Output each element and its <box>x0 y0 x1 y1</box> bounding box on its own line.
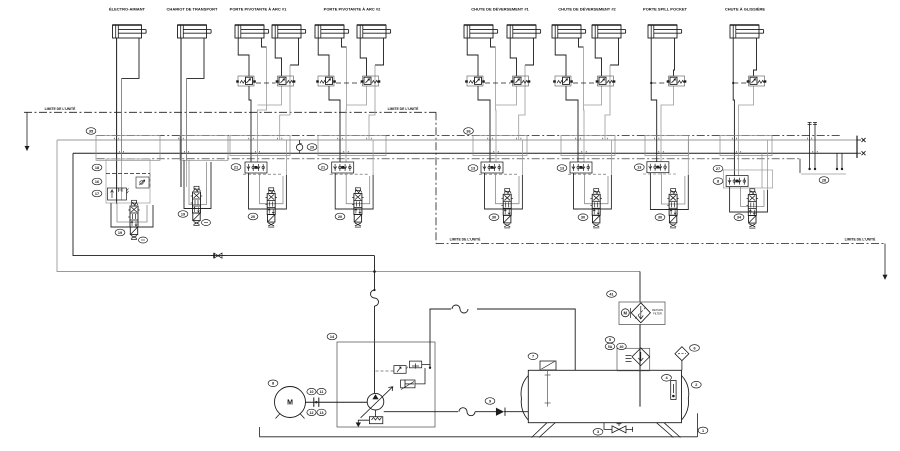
cylinder group 6A <box>552 25 586 38</box>
group5 cylA cap line <box>467 38 478 76</box>
group8 work line right riser <box>767 140 769 190</box>
svg-text:7: 7 <box>532 355 534 359</box>
shaft line <box>306 401 368 403</box>
spare stub left short <box>799 159 801 173</box>
balloon 30 group7 <box>655 214 665 221</box>
directional valve group8 <box>747 189 759 228</box>
counterbalance valve group5A <box>465 76 485 86</box>
pressure rail P horizontal <box>73 152 857 154</box>
svg-text:17: 17 <box>95 192 99 196</box>
cylinder group 5B <box>507 25 541 38</box>
return filter drop through tank <box>639 324 641 407</box>
floor right upright <box>697 413 699 437</box>
group1 dashed pilot lines <box>106 173 150 175</box>
directional valve group3 <box>265 188 277 227</box>
balloon 9 <box>485 398 495 405</box>
balloon 21 group4 <box>318 164 328 171</box>
svg-text:20: 20 <box>338 215 342 219</box>
svg-text:29: 29 <box>310 145 314 149</box>
reservoir right end cap <box>682 376 689 421</box>
counterbalance valve group7 <box>667 76 687 86</box>
balloon 16 <box>92 178 102 185</box>
case drain relief valve <box>369 417 382 424</box>
directional valve group6 <box>590 189 602 228</box>
group7 work line U dark <box>650 173 688 210</box>
group4 work line right riser <box>372 140 374 175</box>
cylinder group 5A <box>464 25 498 38</box>
svg-text:8: 8 <box>717 180 719 184</box>
flow control box group5 <box>481 162 503 173</box>
svg-text:PORTE PIVOTANTE À ARC #2: PORTE PIVOTANTE À ARC #2 <box>324 7 381 12</box>
group5 work line U dark <box>485 173 523 209</box>
balloon 40 <box>617 343 627 349</box>
group1 reducing-check subplate <box>106 159 150 203</box>
group5 manifold block <box>473 135 527 155</box>
group8 cap-end line <box>733 38 734 176</box>
hydraulic pump variable displacement <box>367 393 384 410</box>
manifold enclosure bottom dash-dot <box>97 158 800 160</box>
counterbalance valve group8 <box>747 76 767 86</box>
group8 work line U gray <box>741 187 764 207</box>
balloon 5A <box>605 343 615 349</box>
svg-text:36: 36 <box>466 129 470 133</box>
group6 cylA rod line <box>579 38 584 47</box>
group6 work line right riser <box>610 140 612 175</box>
group5 cylA rod line <box>491 38 496 47</box>
svg-text:LIMITE DE L'UNITÉ: LIMITE DE L'UNITÉ <box>45 106 76 111</box>
group4 cylB rod line <box>375 38 384 65</box>
group5 dashed line under flow box <box>479 173 519 175</box>
group7 work line U gray <box>661 173 685 204</box>
group4 cylA cap line <box>318 38 329 76</box>
cylinder group 8 <box>730 25 764 38</box>
quick-disconnect on P loop line <box>211 253 225 258</box>
coupling symbol <box>314 398 319 407</box>
svg-text:8: 8 <box>272 382 274 386</box>
filler strainer diamond item 6 <box>675 347 689 361</box>
group6 cylA cap line <box>555 38 566 76</box>
svg-text:CHUTE DE DÉVERSEMENT #1: CHUTE DE DÉVERSEMENT #1 <box>471 7 529 12</box>
balloon 14 <box>327 333 337 340</box>
svg-text:CHARIOT DE TRANSPORT: CHARIOT DE TRANSPORT <box>167 7 218 12</box>
group4 dashed line under flow box <box>330 173 370 175</box>
group3 work line right riser <box>285 140 287 175</box>
pump outlet line to tank check <box>384 411 459 413</box>
svg-text:2: 2 <box>695 383 697 387</box>
rail T end arrow <box>857 139 861 141</box>
group1 cap-end line <box>116 38 118 204</box>
svg-text:13: 13 <box>320 411 324 415</box>
solenoid tag group2 <box>202 220 211 226</box>
group6 work line U dark <box>574 173 612 209</box>
drain valve item 3 <box>604 423 612 430</box>
balloon 1 <box>698 427 708 434</box>
pilot dash between group4 CB valves <box>336 82 361 84</box>
unit boundary right drop arrow <box>884 244 886 276</box>
unit boundary lower horizontal <box>436 243 885 245</box>
balloon 7 <box>528 353 538 360</box>
group7 dashed line under flow box <box>643 173 677 175</box>
counterbalance valve group4A <box>316 76 336 86</box>
group7 rod-end line <box>674 38 675 76</box>
svg-text:41: 41 <box>609 292 613 296</box>
balloon 34 group8 <box>734 214 744 221</box>
svg-text:11: 11 <box>320 390 324 394</box>
group8 sub enclosure <box>723 170 772 188</box>
balloon 41 <box>607 291 617 298</box>
compensator second stage <box>409 361 421 368</box>
group2 cap-end line <box>180 38 182 187</box>
level switch stem <box>547 370 549 407</box>
filter clogging indicator <box>621 309 629 317</box>
cylinder group 3A <box>235 25 269 38</box>
T rail left loop down <box>57 140 640 272</box>
level gauge item 4 <box>671 381 676 400</box>
pump suction from unit to tank line <box>430 309 575 370</box>
group4 cylA rod line <box>342 38 347 47</box>
group1 work line U gray <box>117 203 147 222</box>
reservoir skirt right leg <box>657 423 681 438</box>
svg-text:18: 18 <box>95 166 99 170</box>
balloon 3 <box>593 429 603 436</box>
balloon 17 <box>92 190 102 197</box>
svg-text:10: 10 <box>310 390 314 394</box>
svg-text:M: M <box>287 400 293 407</box>
counterbalance valve group4B <box>361 76 381 86</box>
svg-text:30: 30 <box>492 216 496 220</box>
group3 manifold block <box>230 135 290 155</box>
rail end plate right <box>856 136 858 158</box>
svg-text:30: 30 <box>658 216 662 220</box>
svg-text:40: 40 <box>620 345 624 349</box>
group4 manifold block <box>318 135 386 155</box>
balloon 12 <box>307 409 316 415</box>
svg-text:13: 13 <box>471 166 475 170</box>
unit boundary left drop arrow <box>26 112 28 146</box>
svg-text:ÉLECTRO-AIMANT: ÉLECTRO-AIMANT <box>109 7 146 12</box>
spare port stubs right pair1 <box>809 122 811 169</box>
svg-text:21: 21 <box>321 165 325 169</box>
balloon 6 <box>690 345 700 352</box>
svg-text:19: 19 <box>118 231 122 235</box>
group5 work line U gray <box>496 173 520 204</box>
hose break suction <box>451 303 477 315</box>
group2 work line U dark <box>184 160 211 208</box>
balloon 36 manifold <box>464 128 474 135</box>
group5 work line right riser <box>521 140 523 175</box>
balloon 13 coupling <box>317 409 326 415</box>
svg-text:CHUTE À GLISSIÈRE: CHUTE À GLISSIÈRE <box>725 7 766 12</box>
breather assembly box <box>617 348 650 371</box>
pilot dash line compensator <box>376 370 394 372</box>
balloon 28 <box>819 177 829 184</box>
return drop to filter vertical <box>639 272 641 303</box>
svg-text:13: 13 <box>637 166 641 170</box>
reservoir body <box>528 370 681 422</box>
group3 work line U gray <box>260 173 284 204</box>
svg-text:PORTE SPILL POCKET: PORTE SPILL POCKET <box>643 7 687 12</box>
group3 cylA cap line <box>238 38 249 76</box>
breather diamond item 40 <box>632 348 650 366</box>
svg-text:5: 5 <box>609 338 611 342</box>
counterbalance valve group5B <box>511 76 531 86</box>
svg-text:20: 20 <box>251 215 255 219</box>
svg-text:PORTE PIVOTANTE À ARC #1: PORTE PIVOTANTE À ARC #1 <box>230 7 287 12</box>
group3 work line U dark <box>249 173 287 209</box>
balloon 13 group5 <box>468 165 478 172</box>
svg-text:5A: 5A <box>608 345 613 349</box>
group4 work line U dark <box>335 173 373 209</box>
check valve item 9 <box>504 408 506 416</box>
svg-text:30: 30 <box>581 216 585 220</box>
cylinder group 2 <box>178 25 212 38</box>
right spare loop outline <box>801 173 846 175</box>
flow control box group6 <box>570 162 592 173</box>
flow control box group4 <box>332 162 354 173</box>
group8 work line U dark <box>730 187 768 212</box>
group7 work line right riser <box>687 140 689 175</box>
balloon 11 <box>317 388 326 394</box>
cylinder group 4A <box>315 25 349 38</box>
directional valve group5 <box>501 189 513 228</box>
group1 manifold block <box>96 135 160 160</box>
balloon 27 group8 <box>713 165 723 172</box>
group8 rod-end line <box>754 38 757 76</box>
group2 rod-end line with jog <box>187 38 205 78</box>
balloon 20 group3 <box>248 213 258 220</box>
group7 manifold block <box>645 135 689 155</box>
group1 work line U dark <box>111 203 153 227</box>
balloon 10 <box>307 388 316 394</box>
svg-text:CHUTE DE DÉVERSEMENT #2: CHUTE DE DÉVERSEMENT #2 <box>558 7 616 12</box>
group4 cylB cap line <box>360 38 366 76</box>
group3 cylB rod line <box>290 38 299 65</box>
flow control box group8 <box>726 176 748 187</box>
group6 cylB cap line <box>595 38 601 76</box>
cylinder group 4B <box>357 25 391 38</box>
svg-text:9: 9 <box>489 399 491 403</box>
balloon 30 group6 <box>578 214 588 221</box>
group6 dashed line under flow box <box>568 173 608 175</box>
svg-text:16: 16 <box>95 180 99 184</box>
svg-text:3: 3 <box>597 430 599 434</box>
counterbalance valve group3B <box>276 76 296 86</box>
group6 work line U gray <box>585 173 609 204</box>
group1 reducing valve item 16 <box>108 188 127 200</box>
floor baseline <box>260 436 698 438</box>
manifold enclosure top dash-dot <box>97 134 842 136</box>
svg-text:13: 13 <box>560 166 564 170</box>
reservoir skirt left leg <box>532 423 556 438</box>
hose break outlet <box>458 406 484 418</box>
group4 work line U gray <box>346 173 370 204</box>
pump unit enclosure item 14 <box>337 342 435 427</box>
balloon 5 <box>605 337 615 343</box>
svg-text:6: 6 <box>693 346 695 350</box>
group8 manifold block <box>720 135 772 155</box>
svg-text:LIMITE DE L'UNITÉ: LIMITE DE L'UNITÉ <box>450 237 481 242</box>
group3 cylA rod line <box>262 38 267 47</box>
return filter assembly box <box>619 302 665 325</box>
balloon 19 group2 <box>178 211 188 218</box>
svg-text:LIMITE DE L'UNITÉ: LIMITE DE L'UNITÉ <box>388 106 419 111</box>
balloon 21 group3 <box>231 164 241 171</box>
svg-text:21: 21 <box>234 165 238 169</box>
counterbalance valve group6B <box>596 76 616 86</box>
unit boundary vertical mid <box>435 112 437 243</box>
compensator drain to right edge <box>422 365 430 368</box>
group6 cylB rod line <box>610 38 619 65</box>
tank rail T horizontal <box>57 139 857 141</box>
balloon 2 <box>691 381 701 388</box>
pilot dash between group6 CB valves <box>573 82 596 84</box>
directional valve group1 <box>128 200 140 239</box>
svg-text:19: 19 <box>181 212 185 216</box>
breather spring symbol <box>626 356 632 362</box>
balloon 20 group4 <box>335 213 345 220</box>
pressure gauge item 29 <box>299 140 301 144</box>
level switch item 7 <box>540 361 556 370</box>
directional valve group7 <box>667 189 679 228</box>
group1 rod-end line with jog <box>122 38 140 78</box>
svg-text:35: 35 <box>89 129 93 133</box>
group6 manifold block <box>561 135 615 155</box>
flow control box group7 <box>647 162 669 173</box>
balloon 18 <box>92 164 102 171</box>
pump pressure riser vertical <box>374 256 376 290</box>
balloon 4 <box>662 375 672 382</box>
stroking cylinder <box>401 380 415 388</box>
balloon 35 manifold <box>86 128 96 135</box>
balloon 13 group7 <box>634 164 644 171</box>
group3 cylB cap line <box>275 38 281 76</box>
counterbalance valve group3A <box>236 76 256 86</box>
group7 cap-end line <box>651 38 657 162</box>
balloon 8 group8 <box>713 178 723 185</box>
svg-text:M: M <box>624 310 628 315</box>
directional valve group4 <box>352 188 364 227</box>
P rail left loop down <box>73 153 375 255</box>
counterbalance valve group6A <box>553 76 573 86</box>
svg-text:FILTER: FILTER <box>653 312 662 316</box>
svg-text:12: 12 <box>310 411 314 415</box>
rail P end arrow <box>857 152 861 154</box>
cylinder group 1 <box>113 25 147 38</box>
directional valve group2 <box>191 186 203 225</box>
balloon 8 motor <box>268 380 278 387</box>
svg-text:28: 28 <box>822 178 826 182</box>
balloon 30 group5 <box>489 214 499 221</box>
group5 cylB cap line <box>510 38 516 76</box>
pilot dash group8 <box>733 82 746 84</box>
pilot dash between group5 CB valves <box>485 82 511 84</box>
group2 work line U gray <box>189 160 207 204</box>
reservoir left end cap <box>521 376 528 421</box>
group2 manifold block <box>180 135 228 160</box>
solenoid tag group1 <box>139 237 148 243</box>
cylinder group 7 <box>648 25 682 38</box>
group5 cylB rod line <box>525 38 534 65</box>
pilot dash group7 <box>651 82 667 84</box>
compensator pilot valve <box>394 366 406 374</box>
unit boundary upper-left horizontal <box>24 111 436 113</box>
cylinder group 3B <box>272 25 306 38</box>
svg-text:RETURN: RETURN <box>652 308 663 312</box>
electric motor <box>275 387 306 418</box>
spare port stubs right pair2 <box>836 153 838 169</box>
pilot dash between group3 CB valves <box>256 82 276 84</box>
balloon 13 group6 <box>557 165 567 172</box>
balloon 29 <box>307 144 317 151</box>
hose break riser <box>371 290 379 306</box>
svg-text:LIMITE DE L'UNITÉ: LIMITE DE L'UNITÉ <box>845 237 876 242</box>
group1 check valve item 17 <box>136 177 149 188</box>
balloon 19 group1 <box>115 229 125 236</box>
svg-text:1: 1 <box>702 429 704 433</box>
pump drain line to relief <box>375 410 377 417</box>
group3 dashed line under flow box <box>243 173 283 175</box>
cylinder group 6B <box>592 25 626 38</box>
filter diamond <box>631 303 650 323</box>
svg-text:27: 27 <box>716 167 720 171</box>
flow control box group3 <box>245 162 267 173</box>
